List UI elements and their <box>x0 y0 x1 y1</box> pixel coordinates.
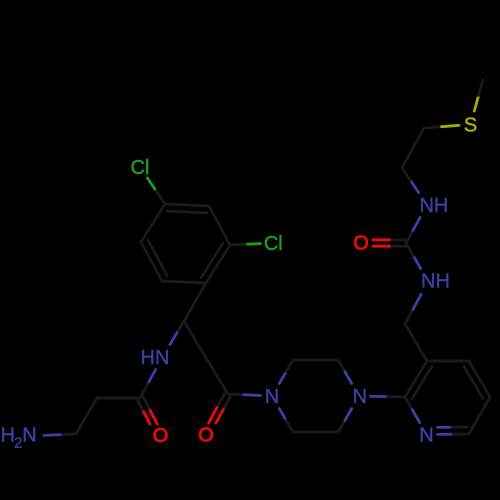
piperazine bond C5-N4 <box>338 420 345 432</box>
bond CH2-S <box>424 127 442 128</box>
double bond C=O (left amide) <box>137 400 143 412</box>
pyridine bond C4-C3 <box>427 360 469 363</box>
svg-text:NH: NH <box>419 195 448 217</box>
bond CH2-CH2 (thioether arm) <box>402 128 424 168</box>
double bond C=O (piperazine amide) <box>217 393 225 408</box>
svg-text:N: N <box>419 425 433 447</box>
bond C(=O)-CH2 <box>97 397 140 400</box>
pyridine double bond C5=C4 <box>469 361 490 397</box>
svg-text:S: S <box>464 115 477 137</box>
benzene ring bond C2=C1 <box>206 245 230 283</box>
piperazine bond N1-C2 <box>279 372 286 384</box>
bond piperazine N4 to pyridine C2 <box>371 395 388 398</box>
bond urea C to upper NH <box>406 230 413 243</box>
bond CH-CH2 <box>184 321 206 358</box>
bond C(=O)-N piperazine <box>228 393 244 397</box>
benzene ring bond C4=C3 (2,4-dichlorophenyl) <box>165 204 209 206</box>
svg-text:N: N <box>265 386 279 408</box>
bond NH to amide carbonyl C <box>148 370 156 384</box>
benzene ring bond C3-C2 <box>209 206 230 245</box>
svg-text:Cl: Cl <box>264 233 283 255</box>
benzene ring bond C6=C5 <box>141 242 162 281</box>
pyridine double bond N1=C6 <box>438 433 454 436</box>
svg-text:O: O <box>353 233 369 255</box>
bond NH to urea carbonyl C <box>413 256 420 269</box>
double bond C=O (urea) <box>390 238 407 241</box>
bond NH-CH2 <box>410 180 418 192</box>
benzene ring bond C1-C6 <box>162 281 206 283</box>
bond CH2-CH2 <box>76 398 97 434</box>
bond CH2-NH2 (amine) <box>60 433 76 437</box>
svg-text:O: O <box>153 425 169 447</box>
piperazine bond C2-C3 <box>293 359 338 362</box>
svg-text:N: N <box>353 386 367 408</box>
bond Cl(ortho) to ring C2 <box>245 242 260 246</box>
piperazine bond C3-N4 <box>338 360 345 372</box>
pyridine bond C6-C5 <box>469 397 490 434</box>
bond CH2-NH (urea) <box>405 309 413 324</box>
bond ring C1 to benzylic CH <box>184 283 206 321</box>
bond CH2 to ketoamide C <box>206 358 228 394</box>
svg-text:HN: HN <box>141 347 170 369</box>
svg-text:NH: NH <box>421 271 450 293</box>
bond CH-NH (amide N-H) <box>177 321 184 333</box>
svg-text:O: O <box>198 425 214 447</box>
svg-text:Cl: Cl <box>131 157 150 179</box>
pyridine bond C2-N1 <box>405 397 412 410</box>
benzene ring bond C5-C4 <box>141 204 165 242</box>
bond pyridine C3 to CH2 <box>405 324 427 361</box>
bond S-CH3 <box>474 96 478 112</box>
piperazine bond C6-C5 <box>293 431 338 434</box>
bond Cl(para) to ring C4 <box>147 178 156 191</box>
pyridine double bond C3=C2 <box>405 361 427 397</box>
piperazine bond N1-C6 <box>279 409 286 421</box>
